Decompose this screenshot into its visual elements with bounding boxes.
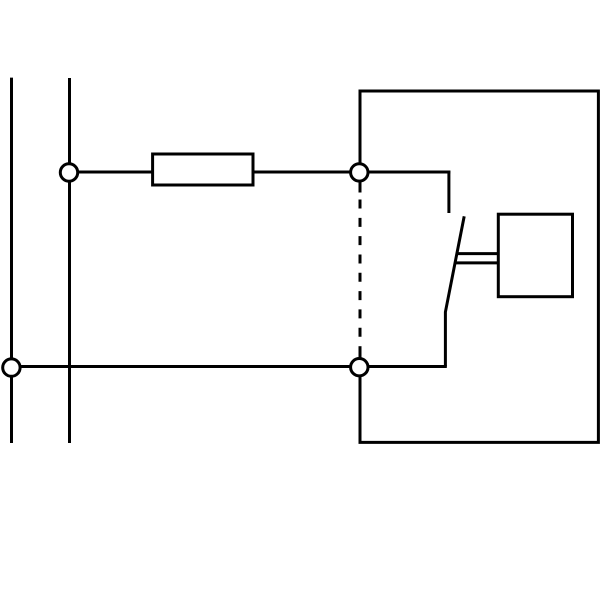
dashed boundary stub above node C — [359, 346, 362, 357]
wire: switch fixed contact drop — [447, 171, 450, 213]
node A junction — [60, 164, 77, 181]
dashed boundary line — [359, 200, 362, 337]
node C junction — [351, 359, 368, 376]
wire top: node A through resistor to enclosure — [69, 171, 450, 174]
node B junction — [351, 164, 368, 181]
switch S1 moving blade — [445, 216, 464, 366]
mechanical link upper line — [457, 252, 499, 255]
supply bus line L2 — [68, 78, 71, 443]
supply bus line L1 — [10, 78, 13, 443]
node D junction — [3, 359, 20, 376]
resistor R1 — [153, 154, 253, 185]
mechanical link lower line — [455, 261, 498, 264]
coil box K1 — [498, 214, 572, 297]
relay enclosure box outline — [360, 91, 598, 442]
wire bottom: node D to switch bottom terminal — [11, 365, 446, 368]
dashed boundary stub below node B — [359, 182, 362, 193]
